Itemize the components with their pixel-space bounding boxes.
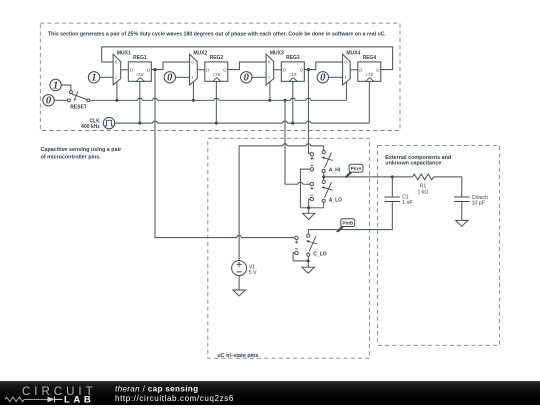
switch A_HI (voltage controlled) (310, 151, 341, 174)
wire: MUX3 output to REG3.D (274, 69, 282, 71)
wire: ground stem below A rail (308, 208, 310, 214)
annotation box: waveform generator section (40, 23, 400, 130)
wire: PinA node to R1 and C1 (392, 176, 412, 178)
wire: R1 to Ctouch (434, 177, 462, 197)
voltage source V1 5V (232, 261, 258, 276)
junction: REG3 clock on CLK bus (291, 122, 294, 125)
svg-text:unknown capacitance: unknown capacitance (385, 161, 441, 167)
junction: REG1.Q branch (153, 68, 156, 71)
register REG2 (D flip-flop) (205, 55, 228, 82)
wire: MUX2 output to REG2.D (197, 69, 205, 71)
junction: REG3.Q branch (307, 68, 310, 71)
wire: REG1.CLK to CLK bus (139, 81, 141, 123)
svg-text:MUX1: MUX1 (117, 51, 131, 57)
clock source CLK 400 kHz (81, 117, 115, 129)
wire: C_LO control - to ground rail (293, 253, 295, 261)
wire: REG3.CLK to CLK bus (292, 81, 294, 123)
svg-text:A_HI: A_HI (329, 168, 341, 174)
junction: MUX2 select on RESET bus (192, 99, 195, 102)
constant 0 source feeding MUX4 (317, 72, 328, 83)
resistor R1 1 kOhm (413, 174, 434, 195)
junction: node PinA (322, 175, 325, 178)
net flag PinB (337, 226, 344, 232)
svg-text:1: 1 (53, 80, 58, 91)
wire: reset high source to switch throw (61, 85, 71, 91)
wire: constant-0 source to MUX4 input 1 (329, 76, 343, 78)
junction: MUX1 select on RESET bus (115, 99, 118, 102)
reset high constant 1 source (50, 79, 61, 90)
svg-text:REG4: REG4 (363, 55, 377, 61)
wire: CLK source to CLK bus (114, 122, 116, 124)
junction: A_LO control tap on RESET bus (283, 99, 286, 102)
svg-text:theran / cap sensing: theran / cap sensing (115, 384, 198, 393)
register REG1 (D flip-flop) (128, 55, 151, 82)
svg-text:0: 0 (244, 73, 250, 84)
svg-text:5 V: 5 V (249, 270, 257, 276)
capacitor C1 1 nF (385, 195, 413, 207)
svg-text:http://circuitlab.com/cuq2zs6: http://circuitlab.com/cuq2zs6 (115, 394, 234, 403)
switch A_LO (voltage controlled) (310, 180, 342, 203)
wire: V1 positive supply to A_HI switch input (239, 144, 324, 261)
wire: REG4.CLK to CLK bus (368, 81, 370, 123)
annotation box: uC tri-state pins (208, 138, 370, 358)
reset low constant 0 source (43, 95, 54, 106)
svg-text:PinB: PinB (342, 221, 353, 227)
wire: reset low source to switch throw (54, 99, 67, 101)
wire: C switch ground rail (293, 256, 308, 261)
mux MUX2 (190, 51, 208, 85)
junction: C_LO ground rail (307, 259, 310, 262)
junction: PinA / R1 / C1 node (391, 175, 394, 178)
register REG3 (D flip-flop) (281, 55, 304, 82)
capacitor Ctouch 10 pF (454, 195, 488, 207)
junction: MUX3 select on RESET bus (268, 99, 271, 102)
wire: feedback REG4.Q to MUX1 input 0 (102, 47, 393, 70)
svg-text:uC tri-state pins: uC tri-state pins (217, 353, 258, 359)
wire: A_HI control - to ground rail (300, 169, 310, 208)
svg-text:1: 1 (344, 75, 346, 80)
svg-text:1 kΩ: 1 kΩ (417, 189, 428, 195)
svg-text:400 kHz: 400 kHz (81, 124, 100, 130)
svg-text:1: 1 (91, 73, 96, 84)
ground below Ctouch (456, 220, 468, 226)
ground below V1 (233, 290, 245, 296)
wire: MUX1 select to RESET bus (116, 82, 118, 100)
wire: REG1.Q down to C_LO control (155, 70, 295, 238)
net flag PinA (345, 172, 352, 178)
wire: REG2.CLK to CLK bus (215, 81, 217, 123)
wire: MUX4 select to RESET bus (345, 82, 347, 100)
svg-text:REG1: REG1 (133, 55, 147, 61)
svg-text:MUX3: MUX3 (270, 51, 284, 57)
wire: constant-0 source to MUX2 input 1 (176, 76, 190, 78)
wire: C1 top lead (391, 177, 393, 197)
constant 0 source feeding MUX3 (241, 72, 252, 83)
svg-text:0: 0 (167, 73, 173, 84)
wire: node PinB (C_LO to C1 bottom) (308, 202, 392, 235)
svg-text:LAB: LAB (64, 395, 94, 406)
wire: CLK distribution bus (115, 121, 369, 123)
wire: REG2.Q to MUX3 input 0 (228, 62, 266, 70)
svg-text:0: 0 (320, 73, 326, 84)
svg-text:C_LO: C_LO (313, 251, 326, 257)
svg-text:0: 0 (46, 96, 52, 107)
svg-text:CLK: CLK (290, 73, 298, 77)
junction: REG2 clock on CLK bus (215, 122, 218, 125)
ground below C_LO switch (302, 267, 314, 273)
wire: MUX4 output to REG4.D (350, 69, 358, 71)
svg-text:MUX4: MUX4 (346, 51, 360, 57)
wire: Ctouch bottom lead to ground (461, 202, 463, 221)
wire: REG3.Q to MUX4 input 0 (304, 62, 342, 70)
mux MUX1 (113, 51, 131, 85)
wire: RESET select bus (90, 98, 347, 100)
mux MUX3 (266, 51, 284, 85)
svg-text:REG3: REG3 (286, 55, 300, 61)
svg-text:CLK: CLK (213, 73, 221, 77)
constant 1 source feeding MUX1 (88, 72, 99, 83)
wire: node PinA (A_HI/A_LO junction to external box) (324, 173, 393, 181)
wire: RESET bus down to A_LO control + (285, 100, 310, 184)
svg-text:This section generates a pair: This section generates a pair of 25% dut… (48, 32, 386, 38)
junction: A switches ground rail (307, 206, 310, 209)
svg-text:Capacitive sensing using a pai: Capacitive sensing using a pair (41, 147, 122, 153)
wire: MUX3 select to RESET bus (269, 82, 271, 100)
switch RESET (SPDT momentary) (67, 91, 89, 111)
svg-text:10 pF: 10 pF (472, 200, 485, 206)
CircuitLab logo: resistor-diode doodle (5, 397, 48, 402)
switch C_LO (voltage controlled) (295, 234, 327, 257)
svg-text:REG2: REG2 (210, 55, 224, 61)
wire: MUX2 select to RESET bus (192, 82, 194, 100)
wire: REG1.Q to MUX2 input 0 (151, 62, 189, 70)
svg-text:PinA: PinA (351, 166, 362, 172)
footer bar (0, 381, 540, 405)
junction: REG1 clock on CLK bus (138, 122, 141, 125)
wire: V1 negative to ground (238, 276, 240, 290)
svg-text:of microcontroller pins.: of microcontroller pins. (41, 154, 102, 160)
mux MUX4 (343, 51, 361, 85)
svg-text:RESET: RESET (70, 104, 87, 110)
svg-text:1: 1 (191, 75, 193, 80)
svg-text:1: 1 (268, 75, 270, 80)
annotation box: external components (378, 145, 500, 345)
wire: MUX1 output to REG1.D (121, 69, 129, 71)
svg-text:1 nF: 1 nF (402, 200, 412, 206)
ground below A_HI/A_LO switches (303, 213, 315, 219)
svg-text:1: 1 (115, 75, 117, 80)
wire: ground stem below C rail (307, 261, 309, 267)
wire: constant-1 source to MUX1 input 1 (100, 76, 113, 78)
wire: REG3.Q down to A_HI control + (308, 70, 310, 154)
wire: A_LO control - to ground rail (309, 199, 311, 208)
svg-text:MUX2: MUX2 (193, 51, 207, 57)
svg-text:A_LO: A_LO (329, 198, 342, 204)
svg-text:CLK: CLK (366, 73, 374, 77)
wire: A switch ground rail (300, 202, 323, 208)
wire: constant-0 source to MUX3 input 1 (252, 76, 266, 78)
constant 0 source feeding MUX2 (164, 72, 175, 83)
svg-text:CLK: CLK (137, 73, 145, 77)
register REG4 (D flip-flop) (358, 55, 381, 82)
